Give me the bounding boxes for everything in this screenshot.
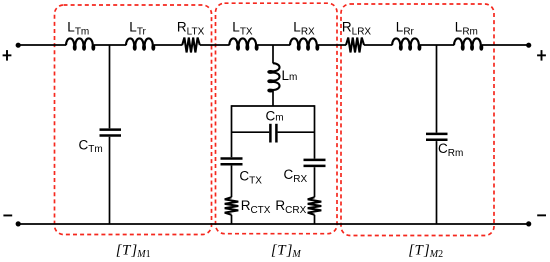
inductor L_Tr [126, 38, 154, 49]
capacitor C_TX [221, 157, 243, 160]
inductor L_TX [229, 38, 257, 49]
resistor R_LRX [346, 38, 364, 53]
wire Lm feed upper [272, 45, 274, 63]
inductor Lm [268, 63, 279, 91]
inductor L_Rr [392, 38, 420, 49]
wire Lm feed lower [272, 91, 274, 106]
wire L_Rm to right terminal [482, 44, 529, 46]
wire R_LTX to L_TX [200, 44, 230, 46]
wire L_TX to L_RX [257, 44, 290, 46]
wire L_Rr to L_Rm [420, 44, 455, 46]
wire C_Tm branch lower [109, 137, 111, 224]
node terminal dot top-left [16, 43, 21, 48]
wire R_CTX to rail [231, 215, 233, 224]
inductor L_RX [290, 38, 318, 49]
wire inner box left vertical [231, 105, 233, 157]
wire C_Rm branch upper [436, 45, 438, 133]
wire R_LRX to L_Rr [364, 44, 393, 46]
capacitor C_Rm [426, 133, 448, 136]
dashed box [T]M2 [341, 4, 494, 236]
resistor R_LTX [182, 38, 200, 53]
wire L_Tm to L_Tr [94, 44, 127, 46]
wire inner box right vertical [314, 105, 316, 158]
node terminal dot bottom-right [526, 221, 531, 226]
capacitor C_Tm [100, 128, 122, 131]
capacitor C_RX [304, 159, 326, 162]
resistor R_CTX [225, 197, 239, 215]
inductor L_Rm [454, 38, 482, 49]
wire C_Tm branch upper [109, 45, 111, 128]
resistor R_CRX [308, 197, 322, 215]
wire R_CRX to rail [314, 215, 316, 224]
dashed box [T]M [216, 3, 338, 234]
wire L_Tr to R_LTX [154, 44, 183, 46]
wire bottom rail [18, 223, 529, 225]
node terminal dot top-right [526, 43, 531, 48]
wire inner box top [232, 105, 315, 107]
inductor L_Tm [66, 38, 94, 49]
label - left [3, 215, 12, 217]
label + left [3, 50, 12, 61]
wire Cm left [232, 131, 270, 133]
wire C_Rm branch lower [436, 141, 438, 224]
wire Cm right [278, 131, 315, 133]
dashed box [T]M1 [55, 5, 212, 235]
wire top rail left [18, 44, 66, 46]
capacitor Cm [269, 124, 272, 143]
node terminal dot bottom-left [16, 221, 21, 226]
wire C_RX to R_CRX [314, 167, 316, 197]
label + right [537, 50, 546, 61]
label - right [537, 214, 546, 216]
wire C_TX to R_CTX [231, 166, 233, 198]
wire L_RX to R_LRX [318, 44, 347, 46]
